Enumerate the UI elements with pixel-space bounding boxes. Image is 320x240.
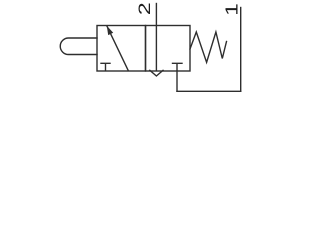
svg-text:2: 2 (136, 2, 155, 15)
wire bottom horizontal run (177, 90, 241, 92)
port 2 line and passage 2 to 3 (right box) (155, 4, 157, 71)
arrowhead on flow path 1 to 2 (107, 26, 113, 35)
flow path 1 to 2 (left box diagonal) (107, 26, 129, 71)
return spring (190, 32, 227, 62)
blocked port 3 symbol (left box T) (101, 63, 110, 70)
valve V1 right position box (146, 26, 191, 72)
exhaust port 3 arrowhead (150, 70, 163, 76)
svg-text:1: 1 (222, 3, 241, 16)
blocked port 1 symbol (right box T) (173, 63, 183, 70)
wire port 1 vertical drop (176, 71, 178, 91)
valve V1 plunger actuator (60, 38, 97, 55)
valve V1 left position box (97, 26, 146, 72)
wire right vertical riser to port 1 terminal (240, 8, 242, 92)
